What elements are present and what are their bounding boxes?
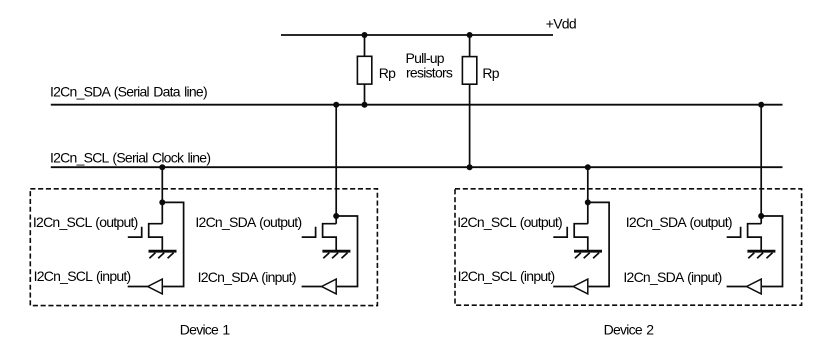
svg-text:Rp: Rp xyxy=(482,65,499,81)
svg-text:resistors: resistors xyxy=(406,65,453,81)
svg-text:Pull-up: Pull-up xyxy=(406,50,445,66)
svg-text:Device 2: Device 2 xyxy=(604,322,655,338)
svg-text:Rp: Rp xyxy=(379,65,396,81)
svg-text:I2Cn_SDA (output): I2Cn_SDA (output) xyxy=(626,214,732,230)
svg-text:I2Cn_SCL (output): I2Cn_SCL (output) xyxy=(33,214,138,230)
svg-text:I2Cn_SCL (output): I2Cn_SCL (output) xyxy=(457,214,562,230)
svg-text:I2Cn_SCL (Serial Clock line): I2Cn_SCL (Serial Clock line) xyxy=(50,149,210,165)
svg-text:I2Cn_SDA (Serial Data line): I2Cn_SDA (Serial Data line) xyxy=(50,84,207,100)
svg-text:+Vdd: +Vdd xyxy=(546,16,576,32)
svg-text:I2Cn_SCL (input): I2Cn_SCL (input) xyxy=(458,268,555,284)
svg-text:I2Cn_SCL (input): I2Cn_SCL (input) xyxy=(34,268,131,284)
svg-text:I2Cn_SDA (input): I2Cn_SDA (input) xyxy=(623,269,721,285)
svg-text:I2Cn_SDA (input): I2Cn_SDA (input) xyxy=(198,269,296,285)
svg-text:I2Cn_SDA (output): I2Cn_SDA (output) xyxy=(195,214,301,230)
svg-text:Device 1: Device 1 xyxy=(180,322,231,338)
